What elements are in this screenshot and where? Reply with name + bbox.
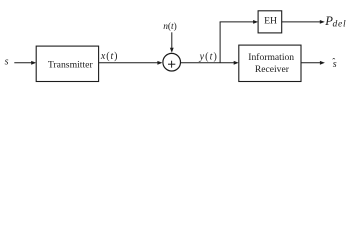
block EH (energy harvester) [258, 11, 282, 33]
wire n(t) down into adder with arrowhead [170, 32, 174, 53]
node s-hat (estimated signal) label [332, 57, 337, 71]
svg-text:s: s [5, 57, 9, 68]
svg-text:ˆ: ˆ [332, 57, 335, 67]
svg-text:Receiver: Receiver [255, 64, 290, 75]
svg-text:Pdel: Pdel [324, 14, 346, 29]
wire junction riser up from y(t) line [219, 22, 221, 63]
wire top horizontal to EH with arrowhead [220, 20, 259, 24]
svg-text:y(t): y(t) [199, 51, 218, 62]
block Information Receiver [239, 45, 301, 81]
block Transmitter [36, 46, 98, 81]
wire adder to Information Receiver with arrowhead [181, 61, 239, 65]
svg-text:Transmitter: Transmitter [48, 59, 94, 70]
wire Information Receiver to s-hat with arrowhead [301, 61, 325, 65]
wire Transmitter to adder with arrowhead [99, 61, 163, 65]
wire s to Transmitter with arrowhead [14, 61, 36, 65]
svg-text:n(t): n(t) [163, 21, 177, 32]
wire EH to P_del with arrowhead [282, 20, 325, 24]
svg-text:Information: Information [248, 52, 294, 63]
adder (summing junction) [163, 53, 181, 71]
svg-text:x(t): x(t) [100, 51, 119, 62]
svg-text:EH: EH [264, 16, 277, 27]
